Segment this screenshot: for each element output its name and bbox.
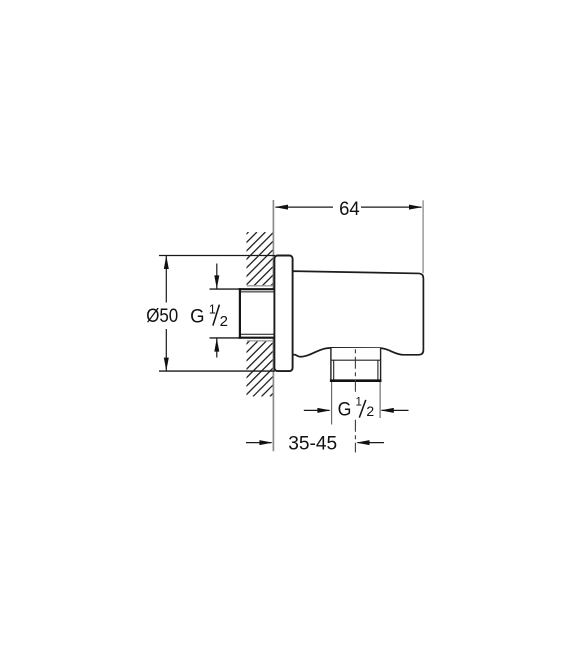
svg-text:1: 1: [209, 302, 216, 316]
svg-text:2: 2: [366, 403, 374, 419]
svg-text:G: G: [338, 398, 352, 420]
svg-text:64: 64: [339, 198, 360, 220]
svg-text:Ø50: Ø50: [146, 305, 178, 327]
svg-text:1: 1: [356, 397, 362, 409]
svg-text:35-45: 35-45: [288, 433, 337, 455]
svg-text:G: G: [190, 305, 204, 327]
svg-text:2: 2: [220, 313, 228, 330]
